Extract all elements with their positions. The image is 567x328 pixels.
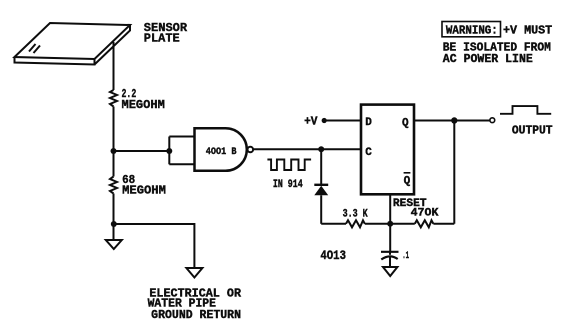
flip-flop U2 4013 body <box>361 105 414 195</box>
svg-text:IN 914: IN 914 <box>273 179 303 191</box>
node J3 <box>318 146 324 152</box>
squarewave symbol <box>267 160 311 171</box>
svg-text:GROUND RETURN: GROUND RETURN <box>151 309 241 322</box>
svg-text:MEGOHM: MEGOHM <box>122 184 166 198</box>
svg-text:4O13: 4O13 <box>320 249 346 263</box>
svg-text:3.3 K: 3.3 K <box>343 209 368 221</box>
svg-text:WARNING:: WARNING: <box>446 25 498 38</box>
wire J3 to diode <box>320 149 322 184</box>
wire +V to D pin <box>324 120 361 122</box>
wire plate to R1 <box>113 42 115 90</box>
resistor R4 470K <box>415 220 434 227</box>
wire 3.3K to reset node <box>365 223 415 225</box>
node J2 <box>111 221 117 227</box>
wire J1 to gate input <box>114 150 170 152</box>
resistor R3 3.3K <box>346 220 365 227</box>
svg-text:MEGOHM: MEGOHM <box>122 98 165 112</box>
wire 68M to node J2 <box>113 194 115 240</box>
wire right riser <box>453 121 455 224</box>
svg-text:Q: Q <box>404 176 411 188</box>
wire diode to bottom rail <box>320 195 322 224</box>
node reset J4 <box>387 221 393 227</box>
wire gate output to C pin <box>253 148 361 150</box>
diode D1 IN914 <box>314 184 328 186</box>
wire capacitor to ground <box>389 251 391 255</box>
wire reset pin <box>389 195 391 224</box>
sensor plate <box>15 23 131 65</box>
wire 470K to right riser <box>433 223 454 225</box>
svg-text:AC POWER LINE: AC POWER LINE <box>443 53 533 66</box>
svg-text:+V: +V <box>304 116 317 129</box>
wire bottom rail left <box>321 223 346 225</box>
node J1 <box>111 148 117 154</box>
svg-text:.1: .1 <box>402 250 409 262</box>
wire R1 to node J1 <box>113 107 115 177</box>
node Q junction <box>451 117 457 123</box>
wire J2 to ground return <box>114 224 195 268</box>
svg-text:4OO1 B: 4OO1 B <box>206 146 237 158</box>
svg-text:OUTPUT: OUTPUT <box>512 125 553 138</box>
ground main <box>106 240 122 249</box>
capacitor C1 .1 <box>381 251 399 253</box>
ground return symbol <box>186 268 202 278</box>
svg-text:+V MUST: +V MUST <box>503 25 552 38</box>
gate input tie bar <box>169 137 195 165</box>
svg-text:PLATE: PLATE <box>144 32 180 46</box>
pulse symbol <box>500 106 551 114</box>
svg-text:RESET: RESET <box>393 198 427 210</box>
svg-text:Q: Q <box>402 118 409 130</box>
gate U1 4001B <box>195 128 247 171</box>
svg-text:C: C <box>365 147 372 159</box>
wire Q to output <box>414 120 490 122</box>
resistor R2 68 MEGOHM <box>110 177 117 194</box>
output terminal circle <box>490 118 495 123</box>
ground under capacitor <box>383 267 397 276</box>
gate U1 output bubble <box>248 147 254 153</box>
warning box <box>442 22 501 37</box>
wire reset node to capacitor <box>389 224 391 251</box>
node gate input tie <box>166 148 172 154</box>
svg-text:D: D <box>365 117 372 129</box>
resistor R1 2.2 MEGOHM <box>110 90 117 107</box>
